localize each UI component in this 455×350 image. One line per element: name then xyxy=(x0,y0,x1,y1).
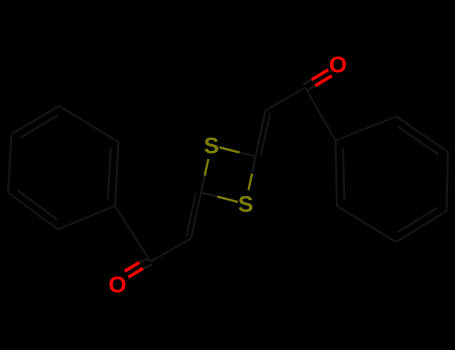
right phenyl ring edge 1-2 xyxy=(336,117,397,141)
svg-text:S: S xyxy=(204,132,219,158)
right phenyl ring edge 3-4 xyxy=(447,152,449,211)
ring bond S3-C4 (C-coloured half) xyxy=(201,193,217,197)
ring bond S1-C4 (C-coloured half) xyxy=(201,176,205,193)
svg-text:S: S xyxy=(238,191,253,217)
svg-text:O: O xyxy=(109,272,127,298)
exocyclic C=C top main line xyxy=(256,111,266,157)
left phenyl ring edge 5-6 xyxy=(59,106,119,142)
right phenyl ring inner double bond on edge 2-3 xyxy=(398,126,439,154)
right phenyl ring edge 2-3 xyxy=(397,117,449,153)
bond C(=O)-phenyl ipso bottom xyxy=(115,206,151,262)
left phenyl ring inner double bond on edge 4-5 xyxy=(20,115,58,137)
left phenyl ring edge 3-4 xyxy=(8,134,12,193)
C=O double bond top line a (O half, red) xyxy=(315,76,332,86)
ring bond S3-C2 (C-coloured half) xyxy=(252,157,256,174)
exocyclic C=C bottom second line xyxy=(186,193,195,236)
bond CH-C(=O) bottom xyxy=(151,239,192,262)
left phenyl ring inner double bond on edge 6-1 xyxy=(108,148,111,199)
C=O double bond bottom line b (C half, dark) xyxy=(139,259,148,263)
left phenyl ring edge 2-3 xyxy=(8,193,58,230)
ring bond S3-C2 (S-coloured half) xyxy=(249,174,253,191)
right phenyl ring edge 5-6 xyxy=(337,206,396,242)
bond C(=O)-phenyl ipso top xyxy=(305,88,336,141)
ring bond S1-C2 (C-coloured half) xyxy=(240,153,256,157)
C=O double bond bottom line a (C half, dark) xyxy=(143,265,152,269)
left phenyl ring edge 4-5 xyxy=(12,106,60,134)
left phenyl ring edge 6-1 xyxy=(115,142,119,206)
exocyclic C=C bottom main line xyxy=(191,193,201,239)
exocyclic C=C top second line xyxy=(261,113,270,156)
left phenyl ring inner double bond on edge 2-3 xyxy=(17,190,57,220)
C=O double bond bottom line b (O half, red) xyxy=(125,262,140,271)
ring bond S3-C4 (S-coloured half) xyxy=(217,197,238,202)
C=O double bond top line a (C half, dark) xyxy=(307,86,316,91)
C=O double bond top line b (C half, dark) xyxy=(303,80,312,85)
right phenyl ring inner double bond on edge 6-1 xyxy=(343,148,344,200)
ring bond S1-C2 (S-coloured half) xyxy=(219,147,239,152)
right phenyl ring inner double bond on edge 4-5 xyxy=(397,208,437,233)
right phenyl ring edge 4-5 xyxy=(396,211,447,242)
svg-text:O: O xyxy=(329,51,347,77)
ring bond S1-C4 (S-coloured half) xyxy=(205,159,209,176)
C=O double bond bottom line a (O half, red) xyxy=(128,268,143,277)
left phenyl ring edge 1-2 xyxy=(58,206,115,230)
bond CH-C(=O) top xyxy=(266,88,306,111)
right phenyl ring edge 6-1 xyxy=(336,141,338,207)
C=O double bond top line b (O half, red) xyxy=(312,70,329,80)
